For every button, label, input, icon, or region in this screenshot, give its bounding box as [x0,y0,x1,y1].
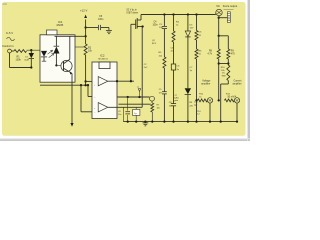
svg-text:Force output: Force output [223,4,238,8]
svg-text:WW: WW [222,75,226,77]
svg-text:MC34151: MC34151 [98,59,108,61]
svg-text:Control in: Control in [2,44,14,48]
svg-text:646: 646 [3,2,8,6]
svg-text:IC2: IC2 [100,54,105,58]
svg-text:IGBT driver: IGBT driver [127,12,139,15]
svg-text:100k: 100k [16,59,22,62]
svg-text:4N35: 4N35 [56,23,63,27]
svg-text:amplifier: amplifier [233,83,242,86]
svg-text:1%: 1% [222,73,225,75]
svg-text:+12 V: +12 V [80,9,88,13]
svg-text:0–5 V: 0–5 V [6,31,13,35]
svg-text:52 V dc in: 52 V dc in [127,9,138,11]
svg-text:15V: 15V [190,28,194,30]
svg-text:amplifier: amplifier [201,83,210,86]
svg-text:100n: 100n [98,18,104,21]
svg-text:100n: 100n [153,25,159,27]
